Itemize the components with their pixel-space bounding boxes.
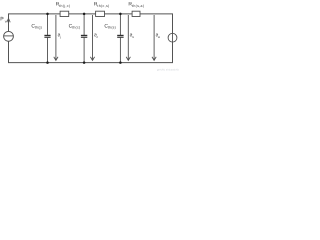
capacitor C_th(s) bbox=[117, 14, 123, 63]
svg-text:th(j,c): th(j,c) bbox=[59, 4, 70, 8]
svg-text:P: P bbox=[0, 17, 4, 23]
arrowhead current direction up bbox=[7, 18, 10, 22]
wire bottom rail bbox=[8, 62, 173, 64]
svg-text:th(s,a): th(s,a) bbox=[132, 4, 144, 8]
resistor R_th(j,c) bbox=[60, 11, 69, 16]
wire left lead above source bbox=[8, 14, 10, 32]
label theta_s bbox=[130, 33, 134, 39]
capacitor C_th(c) bbox=[81, 14, 87, 63]
svg-text:th(s): th(s) bbox=[108, 26, 116, 30]
temperature arrow theta_j bbox=[54, 15, 58, 60]
current source P_v bbox=[4, 31, 14, 41]
capacitor C_th(j) bbox=[44, 14, 50, 63]
voltage source theta_a ambient bbox=[168, 33, 177, 42]
wire right lead below source bbox=[172, 42, 174, 63]
label theta_c bbox=[94, 33, 98, 39]
svg-text:j: j bbox=[59, 35, 61, 39]
wire left lead below source bbox=[8, 41, 10, 63]
temperature arrow theta_s bbox=[126, 15, 130, 60]
svg-text:th(j): th(j) bbox=[35, 26, 42, 30]
svg-text:a: a bbox=[158, 35, 160, 39]
wire right lead above source bbox=[172, 14, 174, 34]
wire top rail segment 2 bbox=[69, 13, 96, 15]
wire top rail segment 4 bbox=[140, 13, 173, 15]
node junction dots C_th(j) bbox=[46, 13, 49, 16]
label R_th(j,c) bbox=[56, 2, 71, 8]
resistor R_th(c,s) bbox=[96, 11, 105, 16]
wire top rail segment 1 bbox=[8, 13, 60, 15]
label R_th(s,a) bbox=[128, 2, 144, 8]
node junction dots C_th(s) bbox=[119, 13, 122, 16]
wire top rail segment 3 bbox=[105, 13, 133, 15]
temperature arrow theta_a bbox=[152, 15, 156, 60]
svg-text:v: v bbox=[5, 20, 7, 24]
svg-text:th(c): th(c) bbox=[72, 26, 80, 30]
label P_v bbox=[0, 17, 7, 24]
node junction dots C_th(c) bbox=[83, 13, 86, 16]
label C_th(s) bbox=[104, 23, 116, 29]
label C_th(c) bbox=[69, 23, 81, 29]
label R_th(c,s) bbox=[94, 2, 110, 8]
label theta_j bbox=[58, 33, 61, 39]
svg-text:ge-URL ei-classic-fix: ge-URL ei-classic-fix bbox=[157, 69, 180, 72]
wire through voltage source bbox=[172, 33, 174, 42]
resistor R_th(s,a) bbox=[132, 11, 140, 16]
label theta_a bbox=[156, 33, 160, 39]
label C_th(j) bbox=[31, 23, 42, 29]
svg-text:th(c,s): th(c,s) bbox=[97, 4, 109, 8]
temperature arrow theta_c bbox=[90, 15, 94, 60]
